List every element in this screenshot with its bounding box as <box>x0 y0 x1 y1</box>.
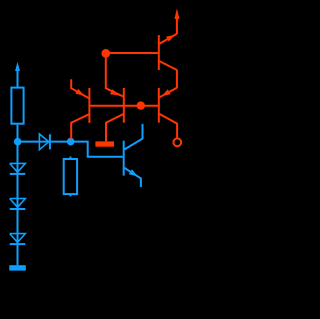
resistor R1 <box>11 88 23 124</box>
diode D3 <box>10 199 26 210</box>
blue rail arrow (supply terminal, up) <box>17 70 19 88</box>
transistor Q2 (red, left PNP) <box>71 79 89 139</box>
red rail arrow (supply terminal, up) <box>176 18 178 34</box>
node junction dot (base line) <box>137 101 145 109</box>
transistor Q5 (blue, NPN) <box>124 124 143 187</box>
wire R1 to ground chain <box>17 125 19 266</box>
wire Q1 base <box>106 52 159 54</box>
node junction dot (top, Q1 base / Q4 emitter) <box>101 49 110 58</box>
shared base wire <box>89 105 158 107</box>
wire Q1 collector to Q3 emitter <box>176 70 178 88</box>
diode D4 <box>10 234 26 245</box>
transistor Q4 (red, middle PNP) <box>106 57 124 141</box>
wire middle node to Q5 base <box>71 142 123 157</box>
ground (blue) <box>9 265 26 270</box>
ground (red) <box>95 141 114 146</box>
diode D2 <box>10 163 26 174</box>
transistor Q3 (red, right PNP) <box>159 88 177 138</box>
diode D1 (horizontal) <box>39 134 50 150</box>
resistor R2 <box>64 157 77 197</box>
node junction dot (middle) <box>67 138 75 146</box>
wire left node to middle node <box>18 141 71 143</box>
node junction dot (left) <box>14 138 22 146</box>
output terminal (open circle) <box>173 138 181 146</box>
transistor Q1 (red, top) <box>159 34 177 70</box>
